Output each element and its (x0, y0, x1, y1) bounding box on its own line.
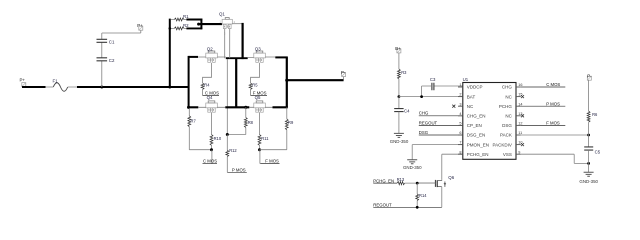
svg-text:7: 7 (459, 141, 461, 145)
svg-text:R14: R14 (419, 193, 427, 198)
svg-text:6: 6 (459, 131, 461, 135)
svg-text:P MOS: P MOS (546, 101, 560, 106)
svg-text:P-: P- (341, 70, 346, 75)
svg-text:F1: F1 (53, 79, 59, 84)
svg-text:R4: R4 (204, 83, 210, 88)
svg-text:1: 1 (459, 83, 461, 87)
svg-text:PACK: PACK (500, 133, 512, 138)
svg-text:12: 12 (518, 122, 522, 126)
svg-text:PCHG: PCHG (499, 104, 513, 109)
svg-text:U1: U1 (463, 77, 469, 82)
svg-text:C3: C3 (430, 77, 436, 82)
svg-text:CHG: CHG (419, 111, 429, 116)
svg-text:R13: R13 (397, 177, 405, 182)
svg-text:REGOUT: REGOUT (373, 203, 392, 208)
svg-text:NC: NC (505, 94, 512, 99)
svg-text:NC: NC (505, 114, 512, 119)
svg-text:Q2: Q2 (207, 46, 213, 51)
svg-text:P+: P+ (20, 78, 26, 83)
svg-text:PCHG_EN: PCHG_EN (467, 152, 489, 157)
svg-text:R3: R3 (401, 70, 407, 75)
svg-text:14: 14 (518, 102, 522, 106)
svg-text:BAT: BAT (467, 94, 476, 99)
svg-text:P MOS: P MOS (232, 167, 246, 172)
svg-text:4: 4 (459, 112, 461, 116)
svg-text:PCHG_EN: PCHG_EN (373, 178, 394, 183)
svg-text:R8: R8 (248, 120, 254, 125)
svg-text:GND-350: GND-350 (390, 139, 409, 144)
svg-text:NC: NC (467, 104, 474, 109)
svg-text:GND-350: GND-350 (579, 179, 598, 184)
svg-text:REGOUT: REGOUT (419, 120, 438, 125)
svg-text:16: 16 (518, 83, 522, 87)
svg-text:DSG: DSG (502, 123, 512, 128)
svg-text:8: 8 (459, 150, 461, 154)
svg-text:C1: C1 (109, 40, 115, 45)
svg-text:C MOS: C MOS (546, 82, 560, 87)
svg-text:R7: R7 (191, 119, 197, 124)
svg-text:CHG_EN: CHG_EN (467, 114, 486, 119)
svg-text:F MOS: F MOS (546, 121, 560, 126)
svg-text:2: 2 (459, 93, 461, 97)
svg-text:DSG_EN: DSG_EN (467, 133, 486, 138)
svg-text:Q5: Q5 (255, 95, 261, 100)
svg-text:C5: C5 (595, 150, 601, 155)
svg-text:R12: R12 (229, 148, 237, 153)
svg-text:3: 3 (459, 102, 461, 106)
svg-text:GND-350: GND-350 (403, 165, 422, 170)
svg-text:C MOS: C MOS (203, 159, 217, 164)
svg-text:Q4: Q4 (207, 95, 213, 100)
svg-text:C4: C4 (404, 109, 410, 114)
svg-text:PMON_EN: PMON_EN (467, 142, 489, 147)
svg-text:DSG: DSG (419, 130, 429, 135)
svg-text:PACKDIV: PACKDIV (492, 142, 511, 147)
svg-text:R1: R1 (183, 14, 189, 19)
svg-text:Q3: Q3 (255, 46, 261, 51)
svg-text:Q1: Q1 (219, 12, 225, 17)
svg-text:R2: R2 (183, 23, 189, 28)
svg-text:Q6: Q6 (448, 175, 454, 180)
svg-text:R11: R11 (261, 136, 269, 141)
svg-text:CHG: CHG (502, 85, 512, 90)
svg-text:R6: R6 (592, 112, 598, 117)
svg-text:9: 9 (518, 150, 520, 154)
svg-text:VSS: VSS (503, 152, 512, 157)
svg-text:R10: R10 (214, 136, 222, 141)
svg-text:F MOS: F MOS (265, 159, 279, 164)
svg-text:P-: P- (587, 74, 592, 79)
svg-text:R9: R9 (288, 120, 294, 125)
svg-text:B+: B+ (395, 46, 401, 51)
svg-text:P+: P+ (137, 23, 143, 28)
svg-text:VDDCP: VDDCP (467, 85, 483, 90)
svg-text:CP_EN: CP_EN (467, 123, 482, 128)
svg-text:5: 5 (459, 122, 461, 126)
svg-text:11: 11 (518, 131, 522, 135)
svg-text:C2: C2 (109, 58, 115, 63)
svg-text:R5: R5 (252, 83, 258, 88)
